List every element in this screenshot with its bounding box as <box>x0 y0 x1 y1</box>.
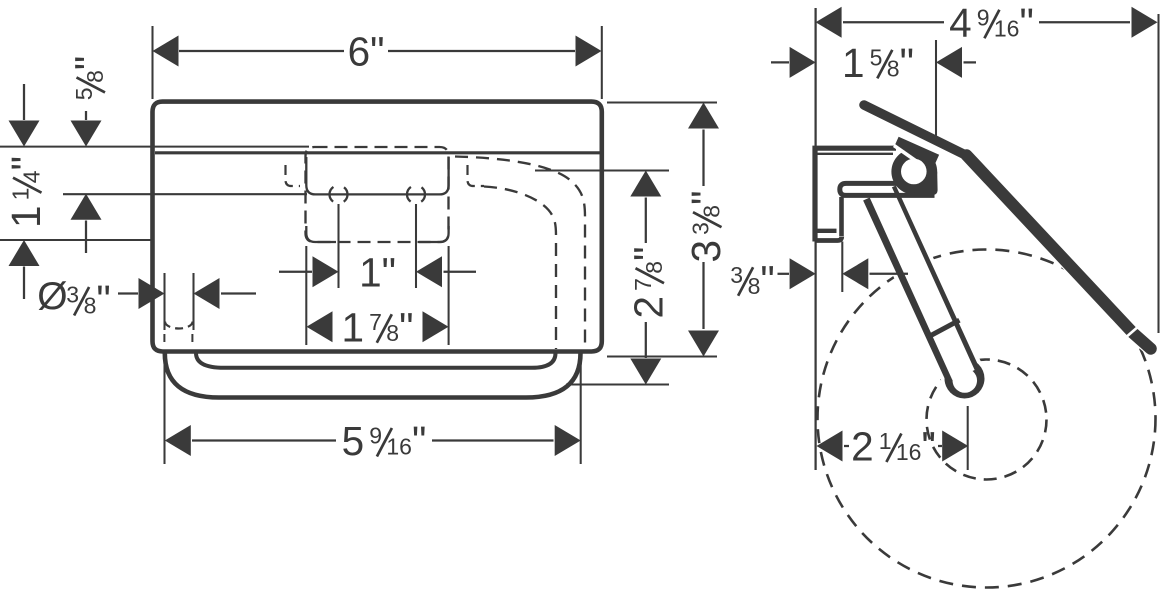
link-ring separation (white) <box>894 146 919 164</box>
arrowhead 5/8 up <box>71 194 102 220</box>
svg-text:": " <box>399 304 413 350</box>
svg-text:7: 7 <box>630 278 656 291</box>
arrowhead 6in left <box>153 36 179 67</box>
arrowhead 1 5/8 right <box>936 47 962 78</box>
roll rail outer outline <box>165 352 581 398</box>
svg-text:5: 5 <box>342 418 365 464</box>
extension line 3/8 side <box>841 242 843 293</box>
extension line 1 7/8 left <box>305 246 307 345</box>
arrowhead 5/8 down <box>71 121 102 147</box>
svg-text:1: 1 <box>359 249 382 295</box>
extension line 4 9/16 right <box>1157 14 1159 333</box>
svg-text:2: 2 <box>626 296 672 319</box>
hidden tab left (dashed) <box>286 165 301 186</box>
arrowhead 5 9/16 right <box>555 425 581 456</box>
screw hole left (dashed circle) <box>330 185 348 203</box>
label 5 9/16" <box>342 418 427 464</box>
svg-text:": " <box>370 29 384 75</box>
svg-text:4: 4 <box>949 0 972 46</box>
svg-text:3: 3 <box>730 262 743 288</box>
arrowhead 1in left <box>313 256 339 287</box>
flap fold gap (white) <box>1125 326 1140 339</box>
arrowhead 1 7/8 right <box>423 311 449 342</box>
arrowhead 2 7/8 down <box>630 359 661 385</box>
bracket inner top edge <box>817 153 893 155</box>
svg-text:3: 3 <box>66 282 79 308</box>
svg-text:5: 5 <box>870 44 883 70</box>
svg-text:9: 9 <box>977 4 990 30</box>
bracket inner vertical <box>839 197 844 236</box>
extent line 3 3/8 bottom <box>607 355 717 357</box>
extension line hole left <box>163 273 165 330</box>
hidden tab right (dashed) <box>468 165 485 186</box>
dimension line 2 7/8 upper <box>645 198 647 244</box>
dimension line 4 9/16 left part <box>843 21 944 23</box>
arrowhead 3 3/8 up <box>688 103 719 129</box>
dimension tail 1in left <box>279 271 312 273</box>
extent line 3 3/8 top <box>607 101 717 103</box>
arrowhead 3/8 right <box>842 258 868 289</box>
dimension tail 1 5/8 left <box>771 61 789 63</box>
roll rail inner outline <box>196 353 556 368</box>
extension line 6in left <box>151 26 153 99</box>
svg-text:Ø: Ø <box>37 275 67 318</box>
dimension line 2 7/8 lower <box>645 322 647 358</box>
extension line 1in left (from screw) <box>337 204 339 288</box>
label 2 7/8" (rotated) <box>626 247 672 319</box>
dimension tail 3/8 left <box>778 273 790 275</box>
label 3/8" <box>730 257 774 303</box>
svg-text:": " <box>900 40 914 86</box>
dimension line 2 1/16 right bit <box>938 445 942 447</box>
svg-text:2: 2 <box>851 424 874 470</box>
arrowhead 1in right <box>416 256 442 287</box>
wall bracket outline <box>815 148 896 241</box>
extension line hole right <box>192 273 194 330</box>
label 6" <box>348 29 385 75</box>
extension line 5 9/16 right <box>580 358 582 464</box>
arrowhead dia3/8 right-pointing <box>139 278 165 309</box>
arrowhead 6in right <box>576 36 602 67</box>
arrowhead dia3/8 left-pointing <box>194 278 220 309</box>
arrowhead 1 7/8 left <box>307 311 333 342</box>
hidden cover profile inner (dashed) <box>484 187 556 350</box>
dimension line 5 9/16 right part <box>432 439 554 441</box>
hidden cover profile outer (dashed) <box>455 157 585 350</box>
svg-text:": " <box>382 249 396 295</box>
mounting hole side left (dashed) <box>163 334 165 347</box>
svg-text:": " <box>760 257 774 303</box>
roll arm white casing cap <box>941 356 987 402</box>
arrowhead 4 9/16 left <box>816 7 842 38</box>
svg-text:1: 1 <box>8 188 34 201</box>
cover flap white casing <box>864 105 1151 349</box>
mounting plate hidden outline (dashed) <box>306 147 449 242</box>
label 5/8" (rotated) <box>67 56 113 100</box>
dimension line 5 9/16 left part <box>192 439 336 441</box>
extension line rail left / 5 9-16 left <box>163 350 165 464</box>
label 1 5/8" <box>842 40 914 86</box>
dimension line 3 3/8 lower <box>702 262 704 329</box>
svg-text:": " <box>96 277 110 323</box>
svg-text:5: 5 <box>71 87 97 100</box>
label 2 1/16" <box>851 424 936 470</box>
arrowhead 1 1/4 up <box>9 240 40 266</box>
cover flap upper segment <box>864 105 968 156</box>
svg-text:8: 8 <box>386 320 399 346</box>
extent line 2 7/8 bottom <box>566 383 669 385</box>
svg-text:1: 1 <box>842 40 865 86</box>
holder body outline (front view) <box>153 102 602 352</box>
wall line <box>814 8 816 470</box>
dimension line 1 1/4 upper <box>23 84 25 120</box>
svg-text:16: 16 <box>994 15 1020 41</box>
svg-text:8: 8 <box>84 293 97 319</box>
screw hole right (dashed circle) <box>407 185 425 203</box>
svg-text:8: 8 <box>887 55 900 81</box>
svg-text:3: 3 <box>688 222 714 235</box>
svg-text:1: 1 <box>879 428 892 454</box>
hinge link plate <box>897 142 938 160</box>
svg-text:7: 7 <box>369 309 382 335</box>
mounting hole mouth (dashed ellipse arc) <box>165 322 193 329</box>
label dia 3/8" <box>37 275 110 323</box>
dimension tail 1in right <box>444 271 477 273</box>
svg-text:8: 8 <box>699 205 725 218</box>
label 1 1/4" (rotated) <box>3 156 49 228</box>
svg-text:4: 4 <box>19 170 45 183</box>
extension line 1 5/8 right <box>935 40 937 136</box>
svg-text:1: 1 <box>3 205 49 228</box>
paper roll outline (dashed circle) <box>818 250 1156 588</box>
svg-text:1: 1 <box>342 304 365 350</box>
paper roll core (dashed circle) <box>927 360 1047 480</box>
svg-text:16: 16 <box>896 439 922 465</box>
cover flap top edge <box>155 151 600 154</box>
svg-text:8: 8 <box>748 273 761 299</box>
extension line 2 1/16 right <box>967 406 969 470</box>
svg-text:": " <box>922 424 936 470</box>
svg-text:": " <box>67 56 113 70</box>
svg-text:": " <box>412 418 426 464</box>
extension line 6in right <box>601 26 603 99</box>
bracket foot upper edge <box>815 229 837 233</box>
pivot housing (filled) <box>891 149 937 195</box>
svg-text:": " <box>626 247 672 261</box>
svg-text:6: 6 <box>348 29 371 75</box>
pivot pin hole <box>901 159 927 185</box>
plate bottom-right corner (visible) <box>419 226 449 242</box>
dimension line 2 1/16 left bit <box>844 445 849 447</box>
roll arm white casing <box>879 193 964 378</box>
svg-text:": " <box>1020 0 1034 46</box>
dimension tail 3/8 right <box>870 273 909 275</box>
label 3 3/8" (rotated) <box>683 191 729 263</box>
bracket foot lower edge <box>815 237 842 241</box>
extent line 2 7/8 top <box>535 169 669 171</box>
dimension line 5/8 lower <box>85 221 87 254</box>
arm mount shelf <box>840 183 935 195</box>
dimension line 6in left part <box>179 50 344 52</box>
svg-text:9: 9 <box>369 423 382 449</box>
svg-text:": " <box>683 191 729 205</box>
label 4 9/16" <box>949 0 1034 46</box>
arrowhead 2 1/16 left <box>817 431 843 462</box>
plate bottom-left corner (visible) <box>306 226 336 242</box>
screw centerline / 1 1/4 ref <box>63 193 307 195</box>
label 1 7/8" <box>342 304 414 350</box>
arrowhead 1 5/8 left <box>790 47 816 78</box>
arrowhead 2 1/16 right <box>942 431 968 462</box>
roll arm outer cap <box>945 359 985 399</box>
svg-text:3: 3 <box>683 240 729 263</box>
leader line dia 3/8 <box>118 292 138 294</box>
arrowhead 2 7/8 up <box>630 171 661 197</box>
svg-text:8: 8 <box>641 261 667 274</box>
roll arm inner slot cap <box>953 368 978 393</box>
dimension tail 1 5/8 right <box>964 61 977 63</box>
arm joint tick <box>929 320 960 337</box>
label 1" <box>359 249 396 295</box>
dimension line 5/8 upper <box>85 111 87 120</box>
svg-text:8: 8 <box>82 70 108 83</box>
escutcheon plate visible edge <box>306 157 448 194</box>
arrowhead 5 9/16 left <box>165 425 191 456</box>
mounting hole side right (dashed) <box>191 334 193 347</box>
dimension line 4 9/16 right part <box>1039 21 1130 23</box>
arrowhead 3/8 left <box>790 258 816 289</box>
dimension line 1 1/4 lower <box>23 267 25 300</box>
svg-text:": " <box>3 156 49 170</box>
roll arm inner slot <box>879 188 964 375</box>
extent line top (5/8 ref) <box>0 146 309 148</box>
svg-text:16: 16 <box>386 434 412 460</box>
extent line (1 1/4 bottom ref) <box>0 239 153 241</box>
arrowhead 1 1/4 down <box>9 121 40 147</box>
arrowhead 4 9/16 right <box>1132 7 1158 38</box>
cover flap main segment <box>967 155 1151 349</box>
dimension line 3 3/8 upper <box>702 130 704 187</box>
roll arm outer <box>880 193 965 378</box>
dimension line 6in right part <box>388 50 575 52</box>
arrowhead 3 3/8 down <box>688 331 719 357</box>
dimension tail dia 3/8 <box>221 292 256 294</box>
extension line 1 7/8 right <box>448 246 450 345</box>
extension line 1in right (from screw) <box>415 204 417 288</box>
